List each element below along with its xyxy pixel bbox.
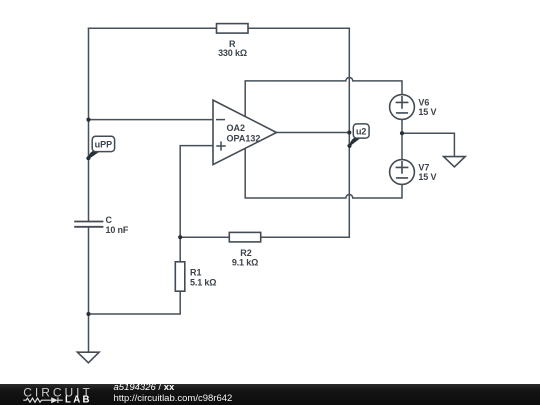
net flag node uPP [86,136,114,160]
wire supply midpoint to right ground [402,133,454,156]
svg-text:330 kΩ: 330 kΩ [218,48,247,58]
net flag node u2 [347,124,369,148]
svg-text:OA2: OA2 [227,123,246,133]
ground left [77,352,99,363]
wire non-inverting input from divider node up to op-amp [180,146,213,262]
voltage source V7 polarity marks [396,162,407,178]
label OA2 name and part OPA132 [227,123,261,143]
label R2 name and value 9.1 kOhm [232,248,258,268]
resistor R1 [175,262,185,291]
node junction at inverting input on left rail [86,118,90,122]
svg-text:u2: u2 [356,127,367,137]
svg-text:15 V: 15 V [418,172,436,182]
wire output rail vertical [348,28,350,237]
ground right [444,157,466,167]
label R1 name and value 5.1 kOhm [190,268,216,288]
wire positive supply with hop over output rail [245,77,402,116]
resistor R [217,24,249,33]
wire inverting input from left rail to op-amp [89,119,214,121]
node junction supply midpoint [400,131,404,135]
op-amp OA2 input polarity marks (- top, + bottom) [217,120,225,150]
svg-text:10 nF: 10 nF [106,225,129,235]
svg-text:R2: R2 [240,248,252,258]
svg-text:15 V: 15 V [418,107,436,117]
svg-text:R1: R1 [190,268,202,278]
svg-text:9.1 kΩ: 9.1 kΩ [232,258,258,268]
label V6 name and value 15 V [418,98,436,117]
voltage source V6 circle [390,95,415,120]
wire negative supply with hop over output rail [245,148,402,198]
node junction divider (R1/R2/+in) [178,235,182,239]
node junction left rail bottom [86,312,90,316]
wire left vertical rail (node uPP) broken by capacitor C [88,28,90,352]
wire V6 to V7 with supply midpoint node [401,119,403,159]
voltage source V7 circle [390,160,415,185]
wire top horizontal from left rail to resistor R and on to output rail [89,27,350,29]
op-amp OA2 triangle body [213,100,277,165]
node junction output rail [347,130,351,134]
svg-text:5.1 kΩ: 5.1 kΩ [190,278,216,288]
label R name and value 330 kOhm [218,39,247,58]
voltage source V6 polarity marks [396,97,407,113]
svg-text:LAB: LAB [65,395,92,405]
label V7 name and value 15 V [418,163,436,182]
svg-text:OPA132: OPA132 [227,133,261,143]
wire R1 bottom to left rail [89,291,181,314]
footer bar [0,384,540,405]
svg-text:C: C [106,215,113,225]
capacitor C [75,222,102,227]
svg-text:uPP: uPP [95,140,113,150]
wire op-amp output to rail [277,132,350,134]
label C name and value 10 nF [106,215,129,235]
resistor R2 [229,232,260,242]
wire R2 horizontal from divider node to output rail [180,236,349,238]
